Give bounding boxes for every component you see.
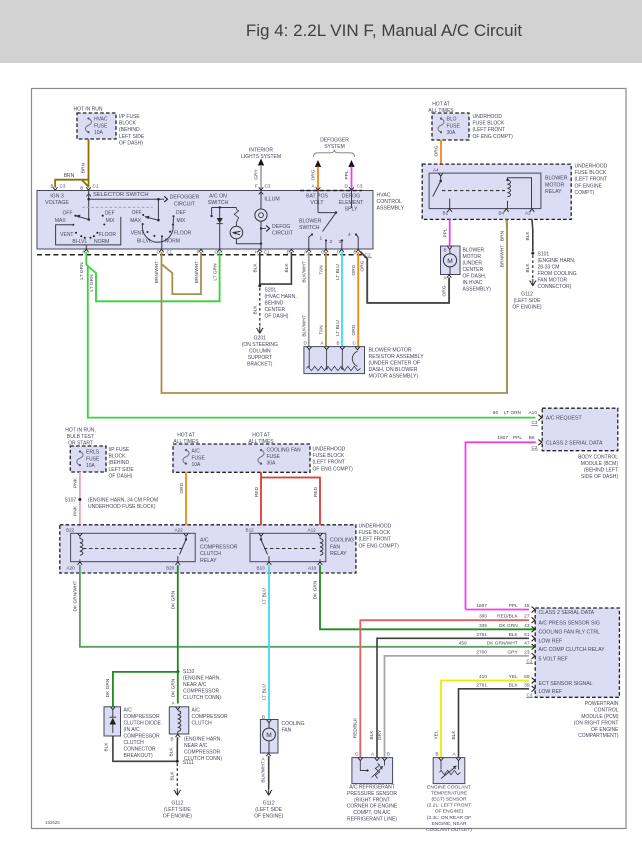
svg-text:BRN/WHT: BRN/WHT — [154, 261, 160, 283]
svg-text:1: 1 — [320, 236, 323, 242]
svg-text:E: E — [287, 250, 290, 255]
svg-text:HOT AT: HOT AT — [252, 433, 270, 439]
svg-text:BREAKOUT): BREAKOUT) — [124, 753, 154, 759]
svg-text:BI-LVL: BI-LVL — [72, 239, 87, 245]
svg-text:COMPRESSOR: COMPRESSOR — [192, 714, 229, 720]
svg-text:UNDRHOOD: UNDRHOOD — [473, 114, 503, 120]
svg-text:ORG: ORG — [433, 145, 439, 156]
relay blower motor relay box — [429, 173, 541, 209]
svg-text:A10: A10 — [528, 410, 537, 416]
svg-text:BULB TEST: BULB TEST — [67, 434, 94, 440]
svg-text:MIX: MIX — [106, 218, 116, 224]
wire ORG fuse to relay A4 — [440, 140, 442, 169]
wire BRN from HVAC fuse to selector switch — [88, 139, 90, 188]
terminal HVAC bottom — [84, 249, 89, 252]
svg-text:ORG: ORG — [351, 324, 357, 335]
cooling fan relay coil — [320, 539, 323, 556]
lamp A/C on indicator — [230, 226, 243, 239]
svg-text:BLOWER: BLOWER — [545, 176, 568, 182]
svg-text:A/C REQUEST: A/C REQUEST — [546, 416, 583, 422]
svg-text:3: 3 — [339, 239, 342, 245]
svg-text:A/C: A/C — [200, 538, 209, 544]
svg-text:MAX: MAX — [130, 218, 142, 224]
svg-text:OF DASH,: OF DASH, — [463, 274, 487, 280]
svg-text:10A: 10A — [192, 462, 202, 468]
svg-text:C2: C2 — [527, 693, 533, 698]
svg-text:CLUTCH CONN): CLUTCH CONN) — [183, 695, 221, 701]
terminal HVAC bottom — [307, 249, 312, 252]
wire PPL class 2 from BCM — [466, 442, 536, 609]
svg-text:C: C — [353, 341, 356, 346]
wire DK GRN B20 to S110 — [177, 565, 179, 672]
terminal HVAC bottom — [159, 249, 164, 252]
rotary 1 wiper arm — [76, 216, 89, 220]
svg-text:POWERTRAIN: POWERTRAIN — [585, 701, 619, 707]
svg-text:FUSE: FUSE — [447, 123, 461, 129]
svg-text:CLUTCH DIODE: CLUTCH DIODE — [124, 721, 162, 727]
svg-text:(BEHIND: (BEHIND — [109, 460, 130, 466]
svg-text:MODULE (BCM): MODULE (BCM) — [581, 461, 619, 467]
svg-text:ENGINE COOLANT: ENGINE COOLANT — [427, 785, 471, 791]
wire PPL to PCM — [466, 609, 530, 611]
svg-text:OF ENGINE: OF ENGINE — [591, 727, 619, 733]
svg-text:HVAC: HVAC — [377, 193, 391, 199]
svg-text:28-33 CM: 28-33 CM — [538, 265, 560, 271]
wire defog element inside — [351, 191, 353, 209]
svg-text:FAN: FAN — [282, 728, 292, 734]
relay dashed link — [442, 190, 505, 192]
HVAC control assembly (selector switch) box — [37, 191, 373, 250]
svg-text:RESISTOR ASSEMBLY: RESISTOR ASSEMBLY — [369, 354, 425, 360]
svg-text:A: A — [82, 250, 85, 255]
svg-text:OF ENG COMPT): OF ENG COMPT) — [313, 466, 354, 472]
svg-text:LT GRN: LT GRN — [89, 274, 95, 292]
splice S101 — [531, 252, 534, 255]
svg-text:27: 27 — [524, 614, 530, 620]
svg-text:A/C: A/C — [124, 708, 133, 714]
terminal HVAC bottom — [199, 249, 204, 252]
svg-text:D: D — [157, 250, 160, 255]
svg-text:LOW REF: LOW REF — [539, 639, 563, 645]
svg-text:51: 51 — [524, 632, 530, 638]
svg-text:A10: A10 — [308, 566, 317, 571]
A/C relay dashed link — [83, 548, 182, 550]
svg-text:2751: 2751 — [476, 632, 487, 638]
wire BLK low ref — [377, 638, 529, 757]
wire BRN/WHT loop C1-F — [162, 252, 202, 294]
svg-text:C: C — [321, 250, 324, 255]
svg-text:C1: C1 — [264, 250, 270, 255]
splice S107 — [78, 498, 81, 501]
svg-text:BLO: BLO — [447, 117, 457, 123]
svg-text:CONTROL: CONTROL — [594, 708, 619, 714]
svg-text:FLOOR: FLOOR — [99, 232, 117, 238]
svg-text:YEL: YEL — [509, 674, 518, 680]
svg-text:OF ENGINE: OF ENGINE — [575, 183, 603, 189]
svg-text:COMPRESSOR: COMPRESSOR — [124, 734, 161, 740]
svg-text:BODY CONTROL: BODY CONTROL — [578, 455, 618, 461]
svg-text:A/C PRESS SENSOR SIG: A/C PRESS SENSOR SIG — [539, 621, 600, 627]
svg-text:INTERIOR: INTERIOR — [249, 148, 273, 154]
svg-text:SWITCH: SWITCH — [208, 200, 229, 206]
svg-text:S107: S107 — [65, 498, 77, 504]
wire BLK diode to S111 — [113, 736, 177, 761]
svg-text:OF ENG COMPT): OF ENG COMPT) — [359, 543, 400, 549]
svg-text:CLUTCH: CLUTCH — [124, 740, 145, 746]
svg-text:OFF: OFF — [63, 211, 73, 217]
svg-text:1807: 1807 — [497, 435, 508, 441]
resistor to A/C lamp — [234, 209, 238, 222]
svg-text:GRY: GRY — [377, 729, 383, 740]
svg-text:TAN: TAN — [319, 325, 325, 335]
svg-text:I/P FUSE: I/P FUSE — [109, 447, 130, 453]
svg-text:PPL: PPL — [509, 603, 518, 609]
svg-text:(2.4L: ON REAR OF: (2.4L: ON REAR OF — [427, 815, 471, 821]
wire DK GRN cooling fan rly ctrl into PCM — [532, 626, 535, 632]
svg-text:BLK: BLK — [253, 263, 259, 273]
wire PNK fuse to S107 — [79, 472, 81, 532]
svg-text:PNK: PNK — [73, 477, 79, 488]
wire LT GRN A/C request from terminal A — [86, 252, 535, 418]
svg-text:A4: A4 — [433, 167, 439, 172]
svg-text:BLK: BLK — [253, 305, 259, 315]
dashed gang line selector — [82, 206, 153, 208]
svg-text:CENTER: CENTER — [463, 267, 484, 273]
svg-text:(LEFT SIDE: (LEFT SIDE — [255, 807, 283, 813]
svg-text:COMPT): COMPT) — [575, 190, 595, 196]
svg-text:4: 4 — [348, 232, 351, 238]
wire ign3 feed inside box — [88, 191, 90, 220]
svg-text:C3: C3 — [357, 184, 363, 189]
wire RED cooling fan fuse to B12 and A12 — [260, 472, 262, 530]
svg-text:MOTOR: MOTOR — [545, 182, 564, 188]
splice S111 — [176, 760, 179, 763]
svg-text:B: B — [444, 248, 447, 253]
svg-text:DEFOGGER: DEFOGGER — [320, 138, 349, 144]
svg-text:BLK: BLK — [451, 730, 457, 740]
svg-text:LOW REF: LOW REF — [539, 689, 563, 695]
svg-text:2: 2 — [330, 239, 333, 245]
svg-text:(2.2L: LEFT FRONT: (2.2L: LEFT FRONT — [427, 803, 471, 809]
svg-text:UNDERHOOD FUSE BLOCK): UNDERHOOD FUSE BLOCK) — [88, 504, 156, 510]
svg-text:10A: 10A — [86, 463, 96, 469]
cooling fan relay bottom terminals — [267, 562, 272, 565]
terminal HVAC bottom — [339, 249, 344, 252]
svg-text:BLOWER: BLOWER — [463, 248, 485, 254]
svg-text:OF ENGINE): OF ENGINE) — [254, 813, 284, 819]
svg-text:BRN: BRN — [499, 230, 505, 241]
wire BLK from H to S201 — [259, 252, 261, 286]
svg-text:FUSE BLOCK: FUSE BLOCK — [359, 530, 391, 536]
svg-text:A2: A2 — [525, 211, 531, 216]
wire BLK/WHT from A to resistor D — [308, 252, 310, 347]
diode in A/C on switch — [219, 206, 221, 208]
wire DK GRN branch to diode — [113, 672, 178, 707]
svg-text:B: B — [436, 752, 439, 757]
svg-text:A/C COMP CLUTCH RELAY: A/C COMP CLUTCH RELAY — [539, 647, 606, 653]
svg-text:B20: B20 — [166, 566, 175, 571]
svg-text:COMPT, ON A/C: COMPT, ON A/C — [353, 810, 391, 816]
svg-text:G201: G201 — [254, 336, 266, 342]
svg-text:BLK: BLK — [284, 263, 290, 273]
svg-text:43: 43 — [524, 623, 530, 629]
svg-text:(ON RIGHT FRONT: (ON RIGHT FRONT — [574, 720, 619, 726]
svg-text:FUSE: FUSE — [86, 456, 100, 462]
svg-text:A22: A22 — [175, 527, 184, 532]
svg-text:A: A — [321, 341, 324, 346]
svg-text:COOLING FAN RLY CTRL: COOLING FAN RLY CTRL — [539, 630, 601, 636]
svg-text:CLASS 2 SERIAL DATA: CLASS 2 SERIAL DATA — [546, 441, 603, 447]
svg-text:RED/BLK: RED/BLK — [352, 717, 358, 738]
svg-text:(ENGINE HARN,: (ENGINE HARN, — [183, 675, 221, 681]
svg-text:C2: C2 — [532, 445, 538, 450]
svg-text:BLK/WHT: BLK/WHT — [302, 315, 308, 336]
A/C relay bottom terminals — [78, 562, 83, 565]
svg-text:BLK: BLK — [525, 231, 531, 241]
blower motor resistor assembly — [304, 347, 365, 374]
svg-text:MIX: MIX — [177, 218, 187, 224]
wire arrow to defogger circuit — [89, 198, 164, 200]
svg-text:1807: 1807 — [476, 603, 487, 609]
svg-text:BEHIND: BEHIND — [265, 301, 284, 307]
svg-text:59: 59 — [524, 674, 530, 680]
svg-text:410: 410 — [479, 674, 487, 680]
svg-text:IGN 3: IGN 3 — [50, 194, 64, 200]
svg-text:(UNDER: (UNDER — [463, 261, 483, 267]
svg-text:G112: G112 — [521, 292, 533, 298]
terminal HVAC bottom — [289, 249, 294, 252]
splice S201 — [258, 284, 261, 287]
svg-text:PPL: PPL — [344, 170, 350, 179]
relay A/C compressor clutch relay — [71, 533, 196, 561]
svg-text:BLK: BLK — [509, 682, 519, 688]
svg-text:B: B — [354, 250, 357, 255]
coil A/C compressor clutch — [169, 707, 189, 734]
rotary 2 contact arc — [142, 224, 173, 242]
relay switch arm — [440, 176, 442, 181]
wire DK GRN/WHT A20 to PCM — [80, 565, 534, 647]
svg-text:RELAY: RELAY — [545, 189, 562, 195]
svg-text:D: D — [337, 250, 340, 255]
svg-text:HOT IN RUN,: HOT IN RUN, — [65, 428, 95, 434]
relay bottom terminals — [447, 209, 452, 212]
svg-text:BLOWER MOTOR: BLOWER MOTOR — [369, 348, 412, 354]
svg-text:BRN: BRN — [64, 173, 75, 179]
wire RED/BLK pressure sensor sig — [360, 620, 529, 757]
svg-text:COMPRESSOR: COMPRESSOR — [200, 544, 238, 550]
wire DK GRN/WHT comp clutch relay into PCM — [532, 644, 535, 650]
svg-text:ECT SENSOR SIGNAL: ECT SENSOR SIGNAL — [539, 681, 593, 687]
svg-text:BI-LVL: BI-LVL — [137, 238, 152, 244]
svg-text:FUSE BLOCK: FUSE BLOCK — [473, 121, 505, 127]
svg-text:OFF: OFF — [132, 210, 142, 216]
svg-text:(BEHIND: (BEHIND — [119, 127, 140, 133]
wire BLK/WHT fan to G112 — [268, 756, 270, 789]
svg-text:15: 15 — [524, 603, 530, 609]
svg-text:LT GRN: LT GRN — [79, 262, 85, 280]
svg-text:A12: A12 — [308, 527, 317, 532]
svg-text:OF DASH): OF DASH) — [109, 473, 133, 479]
terminal HVAC bottom — [356, 249, 361, 252]
svg-text:CLUTCH: CLUTCH — [200, 551, 221, 557]
svg-text:(HVAC HARN,: (HVAC HARN, — [265, 294, 297, 300]
svg-text:COMPRESSOR: COMPRESSOR — [184, 750, 221, 756]
svg-text:335: 335 — [479, 623, 487, 629]
svg-text:BLOWER: BLOWER — [299, 219, 322, 225]
svg-text:Fig 4: 2.2L VIN F, Manual A/C: Fig 4: 2.2L VIN F, Manual A/C Circuit — [246, 21, 522, 40]
svg-text:ERLS: ERLS — [86, 450, 100, 456]
svg-text:YEL: YEL — [434, 730, 440, 739]
svg-text:B22: B22 — [66, 527, 75, 532]
svg-text:(LEFT FRONT: (LEFT FRONT — [575, 177, 607, 183]
svg-text:DEF: DEF — [105, 211, 115, 217]
svg-text:UNDERHOOD: UNDERHOOD — [575, 164, 608, 170]
svg-text:ORG: ORG — [442, 285, 448, 296]
svg-text:VOLT: VOLT — [310, 200, 324, 206]
svg-text:ORG: ORG — [310, 169, 316, 180]
svg-text:OF DASH): OF DASH) — [119, 140, 143, 146]
ground G112 right — [529, 279, 536, 286]
svg-text:PRESSURE SENSOR: PRESSURE SENSOR — [347, 791, 397, 797]
wire BLK from E to S201 — [260, 252, 292, 284]
ground G201 — [256, 327, 263, 334]
svg-text:A/C ON: A/C ON — [209, 194, 227, 200]
svg-text:REFRIGERANT LINE): REFRIGERANT LINE) — [347, 817, 397, 823]
svg-text:NEAR A/C: NEAR A/C — [184, 743, 208, 749]
ground G112 left — [174, 789, 181, 796]
svg-text:RED: RED — [254, 486, 260, 497]
svg-text:SUPPORT: SUPPORT — [248, 355, 272, 361]
svg-text:COOLANT OUTLET): COOLANT OUTLET) — [426, 827, 472, 833]
svg-text:DK GRN/WHT: DK GRN/WHT — [73, 580, 79, 611]
svg-text:C1: C1 — [527, 659, 533, 664]
cooling fan relay switch — [260, 536, 262, 539]
wire GRY 5 volt ref — [385, 656, 530, 758]
wire ORG from B to resistor C — [357, 252, 359, 347]
svg-text:OF ENGINE): OF ENGINE) — [163, 813, 193, 819]
svg-text:DASH, ON BLOWER: DASH, ON BLOWER — [369, 367, 418, 373]
svg-text:LT GRN: LT GRN — [504, 410, 522, 416]
svg-text:ENGINE, NEAR: ENGINE, NEAR — [431, 821, 467, 827]
terminal HVAC bottom — [324, 249, 329, 252]
svg-text:DK GRN: DK GRN — [171, 678, 177, 697]
splice S110 — [176, 670, 179, 673]
diode A/C compressor clutch diode — [104, 707, 121, 736]
wire ORG to defogger system — [315, 160, 321, 167]
svg-text:BLK: BLK — [509, 632, 519, 638]
svg-text:C3: C3 — [60, 183, 66, 188]
svg-text:CONTROL: CONTROL — [377, 199, 402, 205]
svg-text:VENT: VENT — [60, 232, 73, 238]
svg-text:BRN: BRN — [81, 162, 87, 173]
svg-text:10A: 10A — [94, 130, 104, 136]
svg-text:BLOCK: BLOCK — [119, 121, 137, 127]
svg-text:FAN MOTOR: FAN MOTOR — [538, 278, 568, 284]
svg-text:LT BLU: LT BLU — [335, 264, 341, 280]
wire ORG A/C fuse to relay A22 — [185, 472, 187, 530]
wire BLK ect low ref — [459, 689, 530, 758]
svg-text:CORNER OF ENGINE: CORNER OF ENGINE — [347, 804, 398, 810]
svg-text:PPL: PPL — [513, 435, 522, 441]
svg-text:(UNDER CENTER OF: (UNDER CENTER OF — [369, 361, 421, 367]
svg-text:39: 39 — [524, 682, 530, 688]
svg-text:BLK/WHT: BLK/WHT — [260, 761, 266, 782]
svg-text:DK GRN: DK GRN — [499, 623, 518, 629]
svg-text:I/P FUSE: I/P FUSE — [119, 114, 140, 120]
wire YEL ect signal — [441, 681, 529, 758]
wire ORG C2 to blower motor — [360, 252, 449, 303]
svg-text:(LEFT FRONT: (LEFT FRONT — [473, 127, 505, 133]
svg-text:(ENGINE HARN, 34 CM FROM: (ENGINE HARN, 34 CM FROM — [88, 498, 158, 504]
svg-text:UNDERHOOD: UNDERHOOD — [313, 447, 346, 453]
svg-text:PNK: PNK — [73, 505, 79, 516]
svg-text:B: B — [171, 737, 174, 742]
svg-text:IN HVAC: IN HVAC — [463, 280, 483, 286]
underhood fuse block dashed box relays — [60, 525, 356, 573]
svg-text:ASSEMBLY: ASSEMBLY — [377, 206, 405, 212]
svg-text:COOLING: COOLING — [282, 721, 305, 727]
rotary 2 wiper arm — [157, 199, 159, 220]
svg-text:BRACKET): BRACKET) — [247, 362, 273, 368]
svg-text:FUSE: FUSE — [94, 123, 108, 129]
svg-text:GRY: GRY — [253, 169, 259, 180]
svg-text:RELAY: RELAY — [200, 558, 217, 564]
svg-text:PPL: PPL — [442, 228, 448, 237]
svg-text:G: G — [215, 250, 219, 255]
title bar — [0, 0, 642, 63]
svg-text:F: F — [197, 250, 200, 255]
A/C relay coil — [80, 539, 83, 556]
svg-text:SELECTOR SWITCH: SELECTOR SWITCH — [93, 192, 149, 198]
svg-text:VENT: VENT — [131, 230, 144, 236]
svg-text:LT BLU: LT BLU — [262, 588, 268, 604]
svg-text:HOT IN RUN: HOT IN RUN — [73, 107, 102, 113]
svg-text:CONNECTOR): CONNECTOR) — [538, 284, 572, 290]
svg-text:UNDERHOOD: UNDERHOOD — [359, 524, 392, 530]
wire TAN from C to resistor A — [325, 252, 327, 347]
svg-text:BLK: BLK — [169, 747, 175, 757]
HVAC bottom connector dashed line — [37, 254, 362, 256]
svg-text:CENTER: CENTER — [265, 307, 286, 313]
svg-text:HVAC: HVAC — [94, 117, 108, 123]
svg-text:SIDE OF DASH): SIDE OF DASH) — [581, 474, 618, 480]
relay coil — [508, 180, 511, 197]
svg-text:C1: C1 — [93, 183, 99, 188]
svg-text:FUSE: FUSE — [267, 454, 281, 460]
svg-text:BAT POS: BAT POS — [306, 194, 329, 200]
svg-text:COOLING: COOLING — [330, 538, 354, 544]
relay cooling fan relay — [250, 533, 326, 561]
svg-text:COLUMN: COLUMN — [249, 349, 271, 355]
svg-text:30A: 30A — [267, 461, 277, 467]
wire LT GRN branch to G — [88, 252, 220, 301]
svg-text:S201: S201 — [265, 288, 277, 294]
svg-text:LT BLU: LT BLU — [335, 320, 341, 336]
svg-text:HOT AT: HOT AT — [177, 433, 195, 439]
svg-text:CONNECTOR: CONNECTOR — [124, 747, 157, 753]
svg-text:B: B — [80, 185, 83, 190]
svg-text:NORM: NORM — [94, 239, 109, 245]
svg-text:(ENGINE HARN,: (ENGINE HARN, — [184, 737, 222, 743]
svg-text:B: B — [337, 341, 340, 346]
svg-text:DK GRN: DK GRN — [171, 590, 177, 609]
svg-text:LT BLU: LT BLU — [262, 684, 268, 700]
svg-text:A/C: A/C — [192, 449, 201, 455]
A/C on switch symbol — [212, 207, 237, 209]
svg-text:LEFT SIDE: LEFT SIDE — [109, 467, 135, 473]
svg-text:OF ENG COMPT): OF ENG COMPT) — [473, 134, 514, 140]
wire BRN/WHT from terminal D to blower relay B4 — [162, 219, 508, 393]
